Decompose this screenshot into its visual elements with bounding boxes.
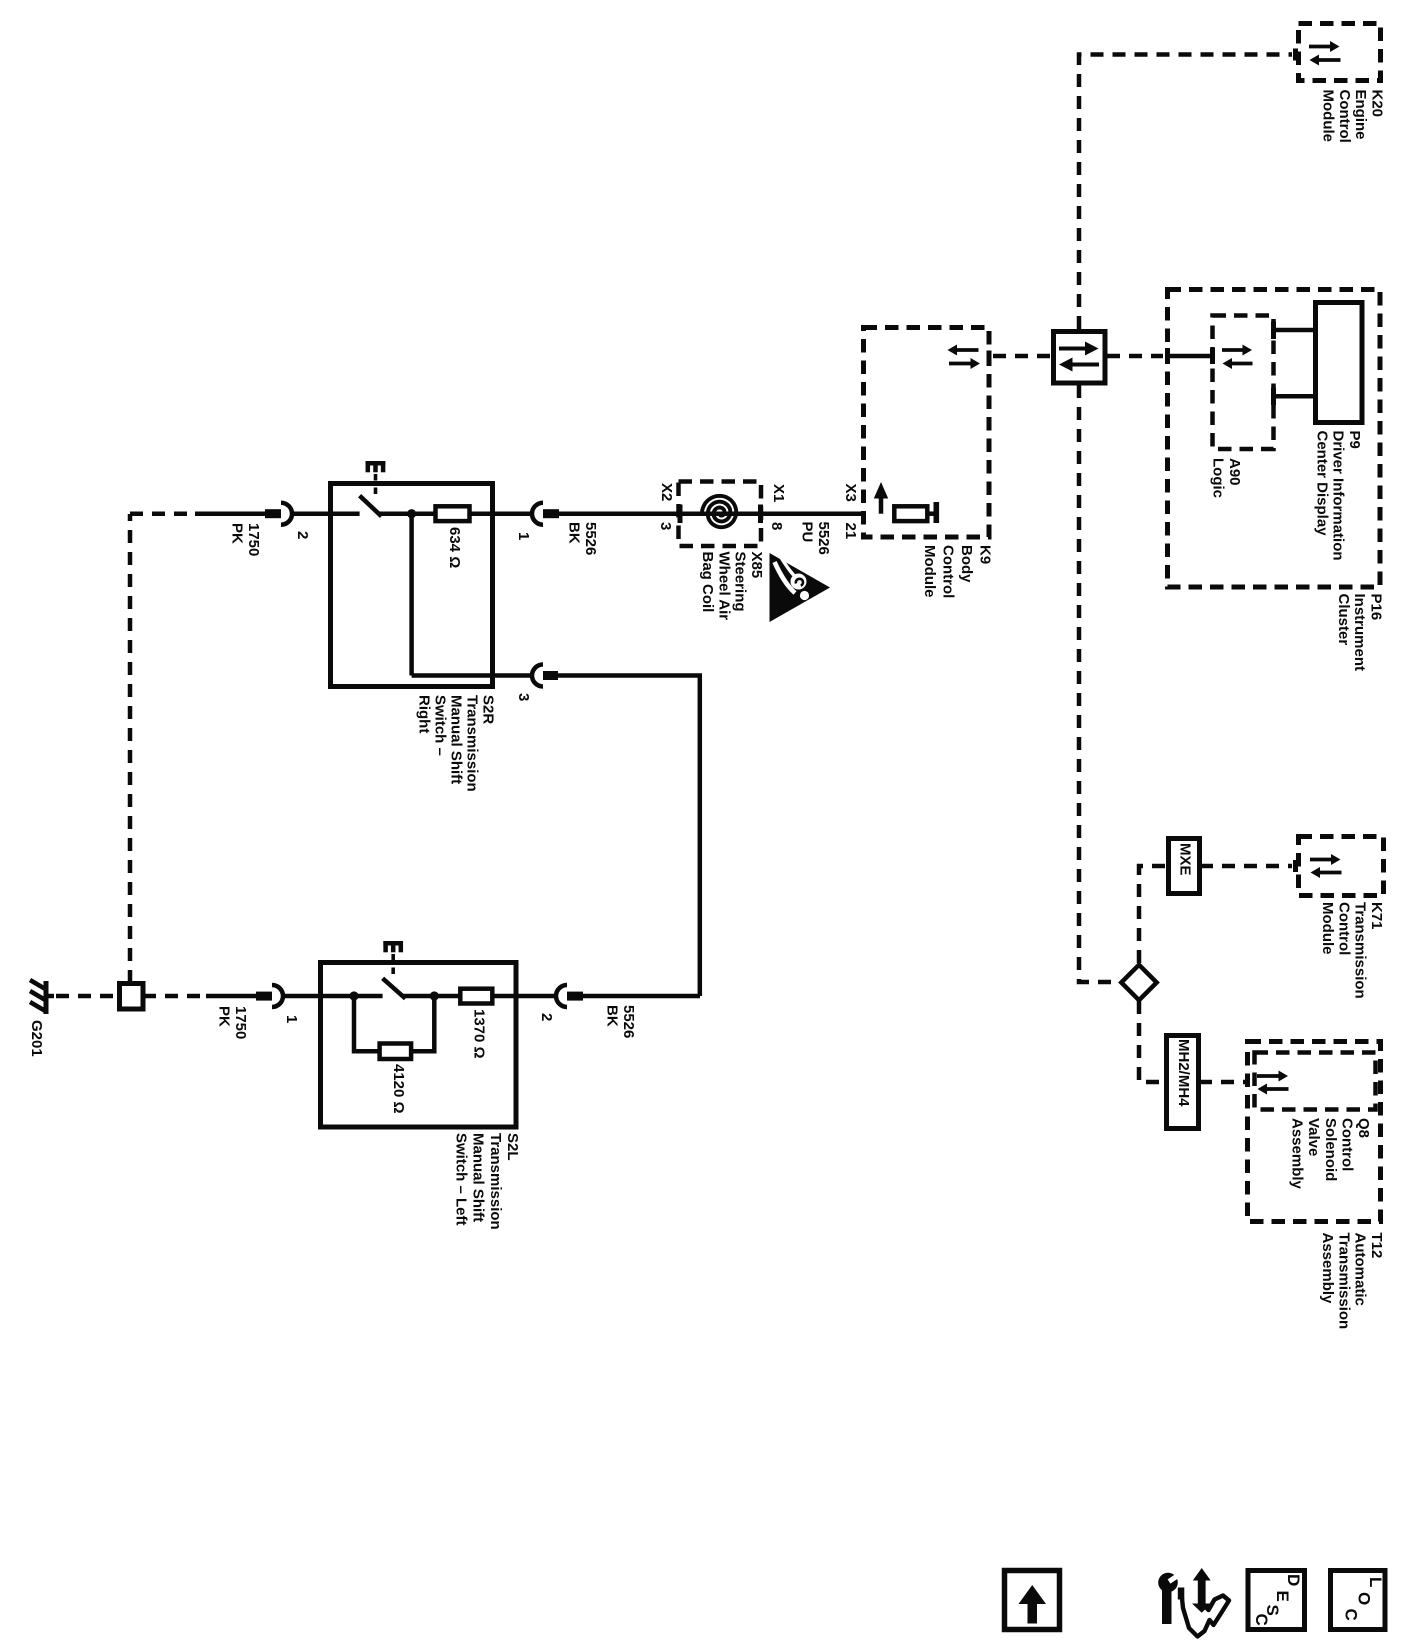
logic block A90 (dashed box) bbox=[1213, 316, 1274, 450]
svg-text:Logic: Logic bbox=[1210, 458, 1227, 498]
svg-text:3: 3 bbox=[515, 693, 532, 701]
svg-text:Center Display: Center Display bbox=[1313, 431, 1330, 537]
svg-text:2: 2 bbox=[538, 1013, 555, 1021]
module K20 Engine Control Module (dashed box) bbox=[1299, 24, 1381, 81]
svg-text:1750: 1750 bbox=[245, 523, 262, 556]
wire MH2/MH4 to Q8 (dashed) bbox=[1199, 1080, 1247, 1085]
svg-text:Control: Control bbox=[1338, 1118, 1355, 1171]
connector MXE (box) bbox=[1169, 839, 1200, 894]
junction node bbox=[407, 509, 416, 518]
wire junction drop inside S2R bbox=[409, 514, 414, 676]
icon up-arrow box bbox=[1005, 1571, 1060, 1630]
module P16 Instrument Cluster (dashed box) bbox=[1168, 290, 1381, 588]
label 4120 ohm bbox=[390, 1064, 407, 1114]
svg-text:1370 Ω: 1370 Ω bbox=[471, 1009, 488, 1059]
label MH2/MH4 bbox=[1175, 1039, 1192, 1107]
termination bar bbox=[934, 502, 940, 523]
svg-text:Automatic: Automatic bbox=[1352, 1233, 1369, 1306]
wire BCM to gateway (serial data, dashed) bbox=[993, 354, 1051, 359]
svg-text:X3: X3 bbox=[842, 484, 859, 502]
wire blade to resistor bbox=[379, 511, 435, 516]
label K20 Engine Control Module bbox=[1320, 90, 1386, 143]
mechanical link dashed line (S2R) bbox=[374, 474, 378, 497]
svg-text:Right: Right bbox=[416, 695, 433, 733]
wire into switch contact (S2L) bbox=[321, 994, 383, 999]
svg-text:5526: 5526 bbox=[815, 522, 832, 555]
svg-text:Control: Control bbox=[1335, 902, 1352, 955]
solenoid assembly Q8 Control Solenoid Valve Assembly (dashed box) bbox=[1255, 1053, 1376, 1110]
wire S2L pin2 to riser bbox=[583, 994, 700, 999]
svg-text:Control: Control bbox=[940, 545, 957, 598]
label X1 bbox=[770, 484, 787, 502]
wire A90 to P9 lower bbox=[1274, 394, 1316, 399]
pin tick A90 to P9 lower bbox=[1271, 388, 1276, 406]
pin tick X2 bbox=[678, 505, 683, 524]
svg-text:Module: Module bbox=[1320, 90, 1337, 143]
svg-text:BK: BK bbox=[604, 1005, 621, 1027]
svg-text:2: 2 bbox=[294, 531, 311, 539]
ground G201 bbox=[30, 980, 54, 1014]
svg-text:Driver Information: Driver Information bbox=[1330, 431, 1347, 561]
resistor 4120 ohm bbox=[380, 1044, 412, 1060]
svg-text:BK: BK bbox=[566, 522, 583, 544]
svg-text:Valve: Valve bbox=[1305, 1118, 1322, 1156]
svg-text:MXE: MXE bbox=[1177, 843, 1194, 876]
wire P16 edge to A90 (solid) bbox=[1168, 354, 1213, 359]
svg-text:1: 1 bbox=[283, 1015, 300, 1023]
svg-text:G201: G201 bbox=[28, 1020, 45, 1057]
svg-text:Transmission: Transmission bbox=[487, 1133, 504, 1230]
coil spiral symbol bbox=[702, 496, 736, 527]
wire S2R pin3 right then down to S2L pin2 net bbox=[558, 676, 700, 997]
label X3 bbox=[842, 484, 859, 502]
wire blade to resistor 1370 bbox=[403, 994, 460, 999]
svg-text:Control: Control bbox=[1336, 90, 1353, 143]
label K9 Body Control Module bbox=[921, 545, 994, 598]
label pin 1 bbox=[283, 1015, 300, 1023]
junction node left bbox=[349, 991, 358, 1000]
label 1750 PK (S2R) bbox=[229, 523, 262, 556]
wire to S2R pin 3 bbox=[412, 673, 531, 678]
serial data gateway node (box with arrows) bbox=[1054, 332, 1106, 384]
connector S2R pin 1 bbox=[532, 503, 559, 525]
pin tick A90 entry bbox=[1210, 348, 1215, 364]
switch blade S2R bbox=[360, 496, 382, 517]
label G201 bbox=[28, 1020, 45, 1057]
svg-text:Solenoid: Solenoid bbox=[1322, 1118, 1339, 1181]
connector S2R pin 3 bbox=[532, 665, 558, 687]
serial data arrows (A90) bbox=[1222, 345, 1253, 370]
svg-text:Module: Module bbox=[1319, 902, 1336, 955]
junction node right bbox=[430, 991, 439, 1000]
svg-text:PU: PU bbox=[799, 522, 816, 543]
svg-text:Transmission: Transmission bbox=[1352, 902, 1369, 999]
label 5526 PU bbox=[799, 522, 832, 555]
svg-text:Transmission: Transmission bbox=[464, 695, 481, 792]
svg-text:Steering: Steering bbox=[732, 552, 749, 612]
svg-text:4120 Ω: 4120 Ω bbox=[390, 1064, 407, 1114]
svg-text:Cluster: Cluster bbox=[1335, 594, 1352, 646]
svg-text:K20: K20 bbox=[1369, 90, 1386, 118]
svg-text:8: 8 bbox=[768, 522, 785, 530]
connector S2L pin 1 bbox=[256, 985, 283, 1007]
label S2L Transmission Manual Shift Switch - Left bbox=[452, 1133, 521, 1230]
svg-text:X1: X1 bbox=[770, 484, 787, 502]
icon wrench and harness bbox=[1158, 1568, 1229, 1637]
connector S2R pin 2 bbox=[265, 503, 292, 525]
serial data arrows (Q8) bbox=[1257, 1071, 1289, 1095]
label 1370 ohm bbox=[471, 1009, 488, 1059]
svg-text:X85: X85 bbox=[748, 552, 765, 579]
wire splice to S2L pin 1 (dashed then solid 1750 PK) bbox=[143, 994, 208, 999]
label pin 8 (X1) bbox=[768, 522, 785, 530]
serial data arrows (K71) bbox=[1310, 854, 1342, 878]
svg-text:S2L: S2L bbox=[504, 1133, 521, 1161]
switch S2R Transmission Manual Shift Switch - Right (box) bbox=[331, 484, 493, 687]
svg-text:P16: P16 bbox=[1368, 594, 1385, 621]
wire splice up-left riser (dashed) bbox=[128, 514, 133, 983]
svg-text:Assembly: Assembly bbox=[1319, 1233, 1336, 1305]
svg-text:634 Ω: 634 Ω bbox=[446, 527, 463, 568]
label 5526 BK (S2L) bbox=[604, 1005, 637, 1038]
label 5526 BK (S2R) bbox=[566, 522, 599, 555]
svg-text:Manual Shift: Manual Shift bbox=[470, 1133, 487, 1222]
pin tick BCM serial out bbox=[987, 351, 992, 363]
label pin 2 bbox=[294, 531, 311, 539]
label P16 Instrument Cluster bbox=[1335, 594, 1385, 672]
wire A90 to P9 upper bbox=[1274, 328, 1316, 333]
svg-text:O: O bbox=[1355, 1592, 1374, 1605]
assembly T12 Automatic Transmission Assembly (dashed box) bbox=[1248, 1042, 1381, 1222]
wire ground to splice (dashed) bbox=[56, 994, 119, 999]
wire resistor 1370 to S2L pin 2 bbox=[492, 994, 555, 999]
wire connector to S2L box bbox=[285, 994, 320, 999]
wire riser to S2R pin 2 (dashed then solid 1750 PK) bbox=[130, 511, 197, 516]
svg-text:Bag Coil: Bag Coil bbox=[699, 552, 716, 613]
svg-text:21: 21 bbox=[842, 523, 859, 540]
branch return to wire bbox=[411, 996, 434, 1051]
svg-text:Wheel Air: Wheel Air bbox=[715, 552, 732, 621]
wire S2R pin1 to X85 (5526 BK) bbox=[559, 511, 679, 516]
svg-text:PK: PK bbox=[216, 1006, 233, 1027]
wire connector to S2R box bbox=[294, 511, 331, 516]
label pin 3 (X2) bbox=[657, 522, 674, 530]
svg-text:MH2/MH4: MH2/MH4 bbox=[1175, 1039, 1192, 1107]
svg-text:Module: Module bbox=[921, 545, 938, 598]
icon DESC box bbox=[1248, 1571, 1305, 1630]
svg-text:1750: 1750 bbox=[232, 1006, 249, 1039]
mechanical link dashed line (S2L) bbox=[391, 954, 395, 978]
display P9 Driver Information Center Display (box) bbox=[1316, 303, 1363, 423]
pin tick K71 entry bbox=[1293, 860, 1298, 872]
pin tick K20 entry bbox=[1293, 49, 1298, 61]
wire gateway up to K20 (dashed) bbox=[1079, 55, 1292, 330]
svg-text:Transmission: Transmission bbox=[1335, 1233, 1352, 1330]
label X2 bbox=[658, 483, 675, 501]
pin tick X1 bbox=[758, 505, 763, 524]
mechanical link bracket (S2L) bbox=[383, 941, 403, 952]
svg-text:S2R: S2R bbox=[480, 695, 497, 724]
pin tick A90 to P9 upper bbox=[1271, 322, 1276, 340]
module K9 Body Control Module (dashed box) bbox=[864, 328, 990, 538]
svg-text:Switch – Left: Switch – Left bbox=[452, 1133, 469, 1226]
module K71 Transmission Control Module (dashed box) bbox=[1299, 837, 1384, 896]
switch S2L Transmission Manual Shift Switch - Left (box) bbox=[321, 963, 517, 1128]
label pin 21 (X3) bbox=[842, 523, 859, 540]
label X85 Steering Wheel Air Bag Coil bbox=[699, 552, 765, 621]
svg-text:A90: A90 bbox=[1226, 458, 1243, 486]
svg-text:Q8: Q8 bbox=[1355, 1118, 1372, 1138]
svg-text:3: 3 bbox=[657, 522, 674, 530]
wire gateway down to diamond (dashed) bbox=[1079, 385, 1119, 982]
label T12 Automatic Transmission Assembly bbox=[1319, 1233, 1385, 1330]
label Q8 Control Solenoid Valve Assembly bbox=[1289, 1118, 1372, 1190]
wire resistor to S2R pin 1 bbox=[470, 511, 532, 516]
svg-text:C: C bbox=[1252, 1614, 1271, 1626]
svg-text:Manual Shift: Manual Shift bbox=[448, 695, 465, 784]
svg-text:Engine: Engine bbox=[1352, 90, 1369, 140]
splice junction square bbox=[120, 984, 144, 1010]
connector MH2/MH4 (box) bbox=[1167, 1036, 1199, 1129]
signal arrow up (BCM input) bbox=[874, 482, 888, 514]
svg-text:C: C bbox=[1342, 1609, 1361, 1621]
wire into switch contact bbox=[331, 511, 360, 516]
svg-text:L: L bbox=[1366, 1577, 1385, 1587]
svg-text:K71: K71 bbox=[1368, 902, 1385, 930]
icon LOC box bbox=[1331, 1571, 1386, 1630]
wire diamond down to MH2/MH4 (dashed) bbox=[1139, 1001, 1163, 1082]
label P9 Driver Information Center Display bbox=[1313, 431, 1363, 561]
connector S2L pin 2 bbox=[556, 985, 583, 1007]
wire diamond up to MXE (dashed) bbox=[1139, 866, 1165, 963]
mechanical link bracket (S2R) bbox=[366, 461, 386, 472]
label pin 2 bbox=[538, 1013, 555, 1021]
svg-text:T12: T12 bbox=[1368, 1233, 1385, 1259]
resistor 1370 ohm bbox=[460, 989, 492, 1004]
label pin 1 bbox=[515, 532, 532, 540]
serial data arrows (K20) bbox=[1309, 41, 1341, 66]
connector X85 Steering Wheel Air Bag Coil (dashed box) bbox=[679, 482, 762, 547]
resistor 634 ohm bbox=[436, 506, 470, 521]
svg-text:E: E bbox=[1273, 1591, 1292, 1602]
svg-text:D: D bbox=[1284, 1574, 1303, 1586]
serial data arrows (BCM, to gateway) bbox=[948, 345, 981, 370]
svg-text:Body: Body bbox=[958, 545, 975, 583]
switch blade S2L bbox=[383, 978, 406, 998]
label 634 ohm bbox=[446, 527, 463, 568]
svg-text:1: 1 bbox=[515, 532, 532, 540]
svg-text:5526: 5526 bbox=[620, 1005, 637, 1038]
splice diamond node bbox=[1121, 965, 1156, 1000]
svg-text:Instrument: Instrument bbox=[1351, 594, 1368, 672]
parallel branch with resistor 4120 ohm bbox=[354, 996, 380, 1051]
svg-text:Assembly: Assembly bbox=[1289, 1118, 1306, 1190]
wire resistor to termination bbox=[927, 511, 934, 516]
label pin 3 bbox=[515, 693, 532, 701]
label MXE bbox=[1177, 843, 1194, 876]
label A90 Logic bbox=[1210, 458, 1243, 498]
svg-text:X2: X2 bbox=[658, 483, 675, 501]
wire gateway right to P16 (dashed) bbox=[1107, 354, 1163, 359]
label 1750 PK (S2L) bbox=[216, 1006, 249, 1039]
label S2R Transmission Manual Shift Switch - Right bbox=[416, 695, 497, 792]
svg-text:PK: PK bbox=[229, 523, 246, 544]
label K71 Transmission Control Module bbox=[1319, 902, 1385, 999]
wire MXE to K71 (dashed) bbox=[1200, 864, 1292, 869]
svg-text:5526: 5526 bbox=[582, 522, 599, 555]
air bag caution triangle bbox=[770, 553, 831, 622]
resistor (BCM internal) bbox=[894, 506, 927, 521]
svg-text:P9: P9 bbox=[1346, 431, 1363, 449]
pin tick P16 entry bbox=[1165, 348, 1170, 364]
svg-text:Switch –: Switch – bbox=[432, 695, 449, 756]
svg-text:K9: K9 bbox=[977, 545, 994, 564]
wire through coil bbox=[679, 511, 864, 516]
